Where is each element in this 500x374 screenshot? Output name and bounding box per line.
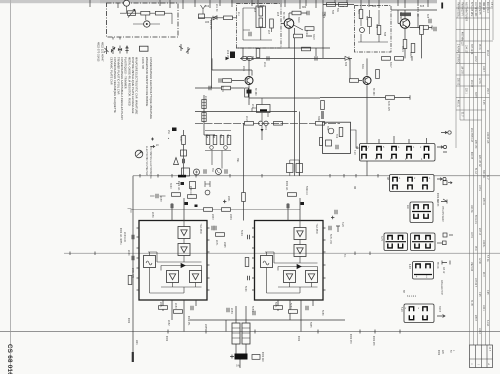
bottom resistor row L — [159, 306, 168, 310]
svg-text:VOLTMETRE ELECTRONIQUE: VOLTMETRE ELECTRONIQUE — [149, 146, 151, 179]
svg-text:2R45: 2R45 — [223, 242, 225, 248]
svg-text:2R11: 2R11 — [242, 66, 244, 72]
IC1 right side components — [212, 226, 214, 230]
svg-text:COIN 700: COIN 700 — [141, 57, 145, 69]
drop to IC2 top area — [243, 210, 245, 221]
end tick — [412, 35, 422, 61]
ticks on y253 bus — [70, 252, 370, 256]
svg-text:2R55: 2R55 — [204, 324, 206, 330]
below bus resistor — [188, 195, 197, 199]
left page border line — [10, 0, 12, 374]
svg-text:FM/AM OSZILL: FM/AM OSZILL — [457, 2, 460, 19]
svg-text:31 7: 31 7 — [486, 175, 488, 180]
svg-text:307 19 04: 307 19 04 — [470, 44, 472, 55]
svg-text:2C59: 2C59 — [151, 212, 153, 218]
svg-text:4822: 4822 — [437, 350, 439, 356]
IC1 body — [139, 221, 207, 301]
svg-text:104 1: 104 1 — [482, 305, 484, 311]
svg-text:05 9: 05 9 — [474, 246, 476, 251]
multiplex transformer cluster — [226, 306, 246, 354]
coil unit inner frame — [256, 6, 266, 28]
top left resistor pair — [327, 3, 336, 7]
ladder R4 — [227, 136, 231, 145]
resistor ladder — [205, 131, 231, 151]
vertical long wire from Q1 area — [294, 28, 296, 176]
svg-text:96 3: 96 3 — [482, 272, 484, 277]
svg-text:MINIATURE ELECTROLYTIC CAP. MI: MINIATURE ELECTROLYTIC CAP. MINIATURE — [135, 57, 139, 115]
between-IC caps — [214, 226, 216, 230]
svg-text:5C80: 5C80 — [289, 303, 291, 309]
wire y123 — [195, 122, 340, 124]
B2 pads bottom row — [393, 185, 397, 189]
svg-text:220 1: 220 1 — [465, 88, 467, 94]
IC1 amp C — [167, 271, 179, 283]
resistor on decoder drop — [242, 193, 246, 202]
module side lug — [320, 138, 323, 146]
svg-text:4822 051: 4822 051 — [209, 20, 211, 30]
IC2 amp D — [306, 271, 318, 283]
svg-text:2R31: 2R31 — [227, 196, 229, 202]
ladder circles — [210, 146, 214, 150]
legend symbol cap 4 — [125, 46, 128, 54]
svg-text:TRIMMER PLASTIC-FOIL CAP.: TRIMMER PLASTIC-FOIL CAP. — [117, 57, 121, 95]
svg-text:118 4: 118 4 — [470, 232, 472, 238]
svg-text:81 12: 81 12 — [474, 168, 476, 174]
svg-text:460 05: 460 05 — [470, 152, 472, 160]
svg-text:5C86: 5C86 — [321, 310, 323, 316]
svg-text:7-20: 7-20 — [353, 150, 355, 155]
wire y58 — [240, 57, 352, 59]
svg-text:PLASTIQUES - TRIMMER: PLASTIQUES - TRIMMER — [124, 57, 128, 89]
svg-text:2C66: 2C66 — [127, 250, 129, 256]
svg-text:6D2: 6D2 — [344, 62, 346, 67]
diode mark above IC1 — [185, 202, 189, 205]
wires around Q1 — [281, 13, 307, 48]
IC2 pins left — [252, 228, 255, 290]
horizontal bus line y331 — [0, 331, 500, 333]
svg-text:4822 121 40551: 4822 121 40551 — [119, 228, 121, 245]
table left symbol: TP arrow — [441, 199, 447, 204]
svg-text:4822 276: 4822 276 — [372, 336, 374, 346]
svg-text:2C58: 2C58 — [159, 196, 161, 202]
dark label block above Q3 — [400, 13, 411, 17]
electronic voltmeter symbol — [135, 150, 143, 158]
resistor right of Q1 — [305, 27, 314, 31]
IC2 pins right — [323, 228, 326, 290]
svg-text:4822 290: 4822 290 — [261, 352, 263, 362]
svg-text:300 101: 300 101 — [482, 170, 484, 179]
svg-text:3R18: 3R18 — [312, 34, 314, 40]
wires in coil box — [243, 8, 272, 40]
svg-text:307 5: 307 5 — [474, 92, 476, 98]
svg-text:4822 051: 4822 051 — [187, 316, 189, 326]
svg-text:5C66: 5C66 — [244, 286, 246, 292]
cap mark — [267, 56, 269, 60]
ticks on y331 bus — [168, 330, 400, 334]
end of x133 drop — [132, 176, 134, 352]
svg-text:2C64 10K: 2C64 10K — [123, 232, 125, 243]
svg-text:5C84: 5C84 — [251, 306, 253, 312]
IC1 pins right — [207, 228, 210, 290]
svg-text:CONDENSATEUR CERAMIQUE PLAQUET: CONDENSATEUR CERAMIQUE PLAQUETTE — [113, 57, 117, 113]
IC2 oscillator box — [261, 256, 273, 268]
IC2 left outside components — [248, 235, 250, 239]
top edge wire stubs — [90, 0, 428, 9]
black connector block bottom — [235, 354, 248, 360]
mute triangle — [174, 158, 179, 165]
antenna input wire — [198, 17, 236, 19]
svg-text:3R21: 3R21 — [317, 116, 319, 122]
svg-text:CONDENSATEUR AJUSTABLE A FEUIL: CONDENSATEUR AJUSTABLE A FEUILLES PLAST. — [120, 57, 124, 121]
svg-text:CERAMIC PLATE CAP.: CERAMIC PLATE CAP. — [110, 57, 114, 85]
svg-text:AB 12: AB 12 — [442, 267, 445, 274]
ceramic filter block — [257, 105, 271, 113]
plus mark — [223, 200, 226, 203]
detector circles — [259, 121, 263, 125]
de-emphasis boxes above bus — [287, 164, 294, 173]
ladder R2 — [213, 136, 217, 145]
svg-text:6C8: 6C8 — [426, 14, 428, 19]
svg-text:MW LW 1: MW LW 1 — [482, 2, 484, 13]
end tick y97 — [409, 95, 411, 100]
svg-text:WIREWOUND RESISTOR FIXE BOBINE: WIREWOUND RESISTOR FIXE BOBINE — [145, 57, 149, 107]
svg-text:ELECTRONIC VOLTMETER: ELECTRONIC VOLTMETER — [145, 146, 147, 176]
svg-text:METAL-OXIDE-FILM RESISTOR. FIX: METAL-OXIDE-FILM RESISTOR. FIXED — [128, 57, 132, 106]
dark component left end — [230, 52, 235, 59]
svg-text:TCA 4500: TCA 4500 — [315, 224, 318, 235]
svg-text:3R8: 3R8 — [226, 134, 228, 139]
svg-text:6-10A: 6-10A — [486, 320, 489, 327]
svg-text:4822 121: 4822 121 — [177, 181, 179, 191]
resistor on Q3 collector — [420, 26, 429, 30]
svg-text:2C82: 2C82 — [167, 320, 169, 326]
Q4 wires — [350, 58, 367, 175]
resistor on y88 — [222, 86, 231, 90]
svg-text:B5 C4: B5 C4 — [436, 262, 438, 269]
potentiometer — [128, 11, 136, 16]
legend symbol cap 3 — [118, 46, 121, 54]
resistors on y58 — [382, 57, 391, 61]
svg-text:2C84: 2C84 — [230, 308, 232, 314]
svg-text:5C7: 5C7 — [365, 16, 367, 21]
table left symbol: arrow-circle — [441, 131, 447, 134]
trimmer pair right of box — [179, 44, 190, 54]
svg-text:31 05: 31 05 — [470, 300, 472, 306]
IC2 amp B — [294, 245, 306, 257]
svg-text:10.7: 10.7 — [488, 347, 490, 352]
svg-text:3 1 × 2 1: 3 1 × 2 1 — [407, 295, 417, 298]
mark above IC1 right — [195, 205, 198, 208]
svg-text:118 2: 118 2 — [474, 56, 476, 62]
Q4 side resistor — [376, 70, 380, 79]
Q3 right resistor — [420, 26, 424, 35]
dark mark above IC2 — [301, 202, 305, 205]
transformer winding 2 — [242, 323, 250, 344]
coil ovals on y58 — [242, 56, 248, 60]
cap at right — [307, 11, 309, 15]
IC1 amp B — [178, 244, 190, 256]
svg-text:CONDENSATEUR ELECTROLYTIQUE MI: CONDENSATEUR ELECTROLYTIQUE MINIATURE — [149, 57, 153, 119]
filter wires — [252, 98, 268, 140]
resistor above IC2 — [288, 193, 297, 197]
svg-text:ABGLEICH 4T: ABGLEICH 4T — [440, 280, 443, 296]
horizontal bus line y176 — [133, 175, 500, 177]
module out wire — [351, 130, 361, 148]
cap on y88 — [209, 86, 211, 90]
B2 pads top row — [393, 177, 397, 181]
cluster resistor — [182, 136, 186, 145]
svg-text:3R2: 3R2 — [302, 7, 307, 9]
module cap — [336, 145, 338, 149]
IC1 inner wires — [148, 221, 202, 294]
IF coil stack wire — [204, 95, 215, 135]
svg-text:5C71 150: 5C71 150 — [329, 234, 331, 245]
trimmer C — [270, 19, 274, 28]
connector block B4 right — [411, 233, 436, 251]
resistor on y209 wire — [204, 208, 213, 212]
svg-text:3C60: 3C60 — [169, 183, 171, 189]
table long column rules — [469, 0, 471, 345]
svg-text:2R9: 2R9 — [251, 56, 253, 61]
legend mark plus — [151, 138, 154, 141]
transistor Q3 — [400, 19, 410, 29]
Q2 base network — [232, 58, 249, 105]
table left symbol: box-arrow — [443, 181, 447, 185]
svg-text:6C31 470: 6C31 470 — [387, 101, 389, 112]
svg-text:6R14: 6R14 — [401, 46, 403, 52]
svg-text:137 9: 137 9 — [478, 185, 480, 191]
svg-text:5R3: 5R3 — [331, 10, 333, 15]
IC1 bottom drops — [163, 300, 196, 332]
module box small — [326, 140, 332, 146]
transistor Q1 — [284, 19, 294, 29]
right mid cluster — [331, 216, 340, 232]
left column components — [321, 101, 325, 110]
wire inside frame — [120, 6, 172, 24]
IC2 inner wires — [265, 221, 318, 294]
IC2 right side components — [329, 226, 331, 230]
svg-text:4-4B: 4-4B — [408, 264, 410, 269]
svg-text:104 137: 104 137 — [465, 45, 467, 54]
legend symbol trimmer 2 — [111, 46, 115, 54]
svg-text:219 05: 219 05 — [470, 80, 472, 88]
svg-text:4822: 4822 — [127, 318, 129, 324]
resistor — [224, 16, 233, 20]
svg-text:2R51: 2R51 — [159, 302, 161, 308]
svg-text:460 MHz 118: 460 MHz 118 — [461, 32, 463, 46]
module circle — [328, 128, 334, 134]
svg-text:460 KHz 2: 460 KHz 2 — [486, 2, 488, 13]
wire y70 — [212, 58, 252, 75]
mute square — [182, 168, 190, 176]
table upper extra rules — [455, 0, 457, 148]
svg-text:▸: ▸ — [168, 137, 169, 140]
legend mark arrow — [151, 145, 155, 147]
IC2 amp A — [294, 228, 306, 240]
svg-text:2R34: 2R34 — [229, 214, 231, 220]
svg-text:ABSTIMM TUNER: ABSTIMM TUNER — [465, 2, 468, 21]
svg-text:10.7 MHz 460: 10.7 MHz 460 — [474, 2, 476, 17]
svg-text:5R51: 5R51 — [274, 302, 276, 308]
base feed vertical — [211, 18, 213, 88]
IC2 top components — [288, 198, 300, 221]
svg-text:5R1: 5R1 — [336, 8, 338, 13]
ladder R1 — [206, 136, 210, 145]
B1 pads bottom row — [362, 154, 366, 158]
svg-text:BF 324: BF 324 — [399, 12, 401, 20]
svg-text:2C2: 2C2 — [205, 6, 210, 8]
IC1 left pin components — [132, 235, 134, 239]
resistor R1 — [141, 11, 150, 15]
coil R inner — [359, 10, 363, 19]
svg-text:2C5: 2C5 — [253, 8, 255, 13]
diode D1 — [213, 16, 217, 20]
wire y320 — [190, 319, 345, 321]
IC2 diode — [297, 265, 301, 269]
Q3 emitter resistors — [403, 40, 407, 49]
coil L1 — [259, 7, 263, 16]
svg-text:4822: 4822 — [297, 336, 299, 342]
svg-text:332 B: 332 B — [438, 306, 440, 312]
IC2 amp C — [284, 271, 296, 283]
svg-text:3C21: 3C21 — [305, 30, 307, 36]
svg-text:2C14: 2C14 — [221, 86, 223, 92]
small circle below — [205, 190, 210, 195]
below bus marks — [181, 182, 185, 185]
ladder R3 — [220, 136, 224, 145]
meter circle — [144, 21, 150, 27]
svg-text:5C9: 5C9 — [375, 24, 377, 29]
caps beside transformer — [227, 308, 229, 312]
cap above IC2 — [287, 204, 289, 208]
svg-text:7U1: 7U1 — [326, 126, 328, 131]
B1 out arrow — [437, 146, 447, 152]
svg-text:4822 070: 4822 070 — [349, 334, 351, 344]
resistor on y123 right — [316, 122, 325, 126]
small cap in box — [249, 32, 251, 36]
svg-text:0 25: 0 25 — [478, 292, 480, 297]
resistor right group — [274, 122, 283, 126]
svg-text:2C7: 2C7 — [267, 30, 269, 35]
lamp circle top — [124, 0, 130, 6]
svg-text:205 03: 205 03 — [457, 78, 459, 86]
svg-text:6R4: 6R4 — [372, 6, 377, 8]
dash-dot coil unit box — [237, 4, 282, 49]
svg-text:5R55: 5R55 — [309, 322, 311, 328]
svg-text:5C2: 5C2 — [322, 14, 324, 19]
emitter resistor Q2 — [245, 88, 249, 97]
svg-text:2C80: 2C80 — [174, 303, 176, 309]
svg-text:2W1: 2W1 — [135, 340, 137, 345]
svg-text:2 KANAL STEREO: 2 KANAL STEREO — [457, 44, 460, 64]
transistor Q4 — [363, 77, 371, 85]
svg-text:3M1: 3M1 — [236, 158, 238, 163]
coil L2 — [259, 18, 263, 27]
cluster cap — [183, 159, 185, 163]
svg-text:4822 121: 4822 121 — [285, 181, 287, 191]
resistor base — [223, 79, 232, 83]
module resistor — [339, 128, 343, 137]
mid bus y111 — [195, 111, 297, 113]
IC1 amp A — [178, 227, 190, 239]
svg-text:80 110 9: 80 110 9 — [474, 215, 476, 224]
svg-text:FM/AM ZF/FI: FM/AM ZF/FI — [461, 2, 464, 16]
pcb outline line y209 — [131, 210, 300, 213]
small box beside — [252, 355, 260, 360]
svg-text:LW 150: LW 150 — [461, 66, 463, 74]
svg-text:S-70: S-70 — [380, 236, 382, 242]
svg-text:3R16: 3R16 — [297, 17, 299, 23]
svg-text:BF 440: BF 440 — [372, 88, 374, 96]
svg-text:5R8: 5R8 — [383, 32, 385, 37]
dash-dot coil unit box R — [355, 6, 392, 53]
bottom resistor row R — [274, 306, 283, 310]
svg-text:5-20: 5-20 — [400, 307, 402, 312]
legend symbol trimmer 1 — [104, 46, 109, 54]
svg-text:4822 130: 4822 130 — [416, 7, 418, 17]
svg-text:6R17: 6R17 — [389, 62, 391, 68]
dash-dot frame top-left — [107, 3, 179, 37]
svg-text:A2 B3: A2 B3 — [436, 200, 439, 207]
below bus box — [190, 182, 196, 189]
svg-text:205 8: 205 8 — [474, 315, 476, 321]
IF feed wire y98 — [249, 92, 320, 98]
bus dark bar — [178, 175, 186, 178]
svg-text:1M2 104: 1M2 104 — [470, 262, 472, 272]
svg-text:2C18: 2C18 — [245, 116, 247, 122]
x133 bottom mark — [132, 352, 134, 362]
svg-text:96 12: 96 12 — [486, 50, 488, 56]
feed component — [247, 90, 252, 94]
second IF drop wire — [299, 112, 301, 176]
svg-text:12 81: 12 81 — [478, 78, 480, 84]
Q3 wires — [391, 10, 437, 58]
svg-text:104 BL: 104 BL — [482, 240, 484, 248]
svg-text:BF 324: BF 324 — [282, 12, 284, 20]
svg-text:2C1 39: 2C1 39 — [215, 4, 217, 12]
cap above IC1 left — [156, 194, 158, 198]
svg-text:0.5 1: 0.5 1 — [490, 2, 492, 8]
input box — [199, 14, 205, 19]
tuner module box — [323, 122, 351, 153]
svg-text:12 06: 12 06 — [478, 258, 480, 264]
IF coil 1 — [202, 100, 206, 109]
wire y97 — [320, 97, 410, 99]
svg-text:2S1: 2S1 — [167, 130, 169, 135]
transistor Q2 — [245, 77, 253, 85]
ticks on y176 bus — [140, 174, 378, 178]
svg-text:81 7: 81 7 — [461, 112, 463, 117]
svg-text:05 31: 05 31 — [478, 44, 480, 50]
antenna symbol — [201, 5, 206, 14]
svg-text:205 01: 205 01 — [482, 198, 484, 206]
B4 right symbols — [437, 242, 442, 244]
Q4 base resistor — [350, 79, 359, 83]
cap base — [219, 78, 221, 82]
svg-text:5R29 1K: 5R29 1K — [305, 186, 307, 195]
dark mark — [172, 128, 177, 132]
svg-text:3S1: 3S1 — [211, 168, 213, 173]
svg-text:0 45: 0 45 — [486, 290, 488, 295]
top border strip — [0, 0, 437, 3]
caps near circles — [204, 169, 206, 173]
svg-text:7C2: 7C2 — [335, 134, 337, 139]
svg-text:150 3: 150 3 — [486, 88, 488, 94]
B2 right symbol — [437, 178, 442, 181]
legend symbol box resistor — [140, 46, 149, 51]
IC1 amp D — [190, 271, 202, 283]
resistor R2 — [155, 11, 164, 15]
